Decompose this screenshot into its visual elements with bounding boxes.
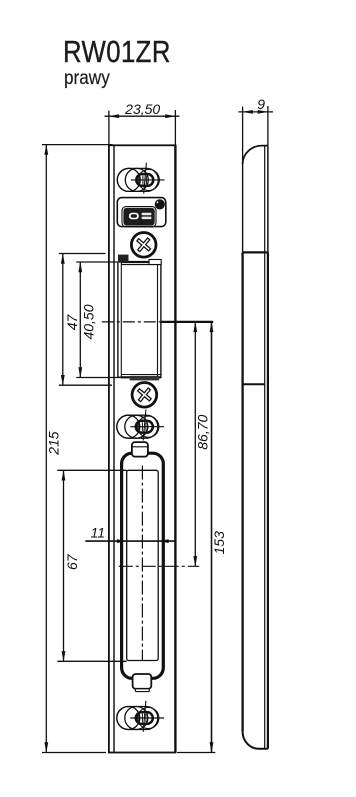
svg-text:47: 47: [64, 314, 80, 331]
svg-text:153: 153: [211, 531, 227, 555]
svg-text:9: 9: [257, 96, 265, 112]
svg-text:67: 67: [64, 553, 80, 570]
svg-text:23,50: 23,50: [124, 101, 160, 117]
svg-text:86,70: 86,70: [195, 414, 211, 449]
svg-text:215: 215: [46, 431, 62, 456]
svg-text:11: 11: [91, 524, 106, 540]
svg-text:40,50: 40,50: [80, 304, 96, 339]
